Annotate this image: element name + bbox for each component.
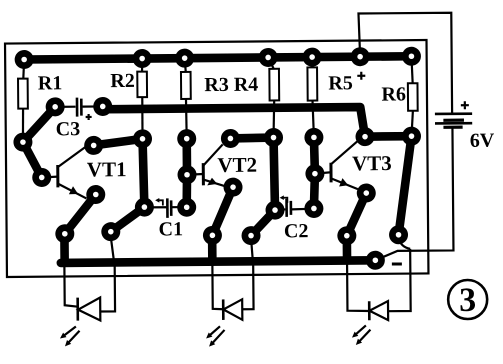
svg-text:VT2: VT2	[217, 153, 257, 177]
svg-text:R5: R5	[328, 72, 353, 94]
svg-text:6V: 6V	[470, 130, 495, 152]
svg-text:VT3: VT3	[352, 151, 392, 175]
svg-text:R1: R1	[38, 72, 63, 94]
svg-text:R3 R4: R3 R4	[204, 74, 258, 96]
svg-text:C1: C1	[158, 218, 183, 240]
svg-text:R2: R2	[110, 70, 135, 92]
svg-text:C3: C3	[56, 118, 81, 140]
svg-text:3: 3	[459, 282, 476, 319]
svg-text:VT1: VT1	[87, 157, 127, 181]
svg-text:C2: C2	[284, 220, 309, 242]
svg-text:R6: R6	[381, 83, 406, 105]
